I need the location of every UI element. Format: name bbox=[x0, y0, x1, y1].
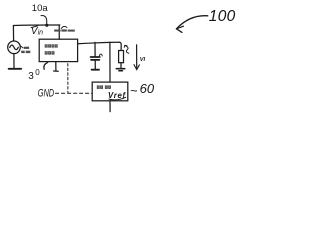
svg-text:in: in bbox=[38, 30, 44, 37]
svg-text:10a: 10a bbox=[32, 3, 49, 14]
svg-text:~: ~ bbox=[130, 84, 137, 98]
svg-text:60: 60 bbox=[140, 81, 155, 96]
svg-text:VI: VI bbox=[140, 57, 146, 63]
svg-text:0: 0 bbox=[35, 68, 40, 77]
svg-text:100: 100 bbox=[209, 8, 236, 25]
svg-text:3: 3 bbox=[28, 71, 34, 82]
svg-text:GND: GND bbox=[38, 87, 55, 99]
